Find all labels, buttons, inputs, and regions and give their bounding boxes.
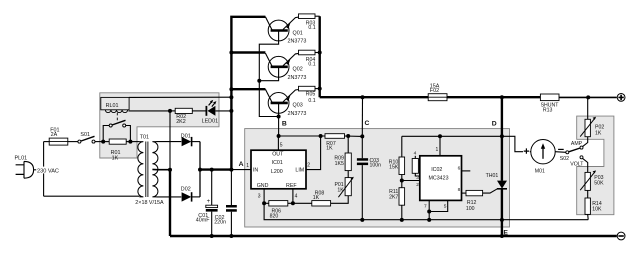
VOLT contact to P03 [583,158,588,172]
primary bottom return wire [44,195,140,197]
wire coil box top to left rail [129,96,231,98]
node C riser [361,97,363,136]
svg-text:4: 4 [295,194,298,200]
resistor R03 [299,14,316,19]
svg-text:LIM: LIM [295,168,304,174]
junction [262,201,266,205]
svg-text:220n: 220n [214,219,226,225]
switch S01 [78,140,81,143]
svg-text:2N3773: 2N3773 [288,39,307,45]
junction [229,51,233,55]
svg-text:230 VAC: 230 VAC [37,168,59,174]
junction [210,234,214,238]
wire to fuse [44,141,50,143]
svg-text:100: 100 [466,206,475,212]
resistor R07 [325,134,345,139]
plug PL01 [24,161,34,178]
resistor R12 [466,190,483,195]
junction [229,87,233,91]
svg-text:1: 1 [436,147,439,153]
svg-text:TH01: TH01 [486,173,499,179]
regulator module shaded box [245,129,510,227]
dashed actuator link [116,113,118,122]
svg-text:R05: R05 [306,91,316,97]
secondary centre tap [152,168,170,170]
junction [291,201,295,205]
junction [318,87,322,91]
svg-text:8: 8 [458,187,461,193]
wire R08 to P01 [331,196,349,204]
svg-text:D: D [492,120,497,127]
diode D01 [157,141,182,143]
svg-text:IC01: IC01 [272,160,283,166]
svg-text:PL01: PL01 [15,155,28,161]
base drop Q03 joins bus [278,103,280,136]
junction [361,95,365,99]
svg-text:A: A [239,161,244,168]
shunt resistor R13 [540,94,559,101]
svg-text:LED01: LED01 [202,118,218,124]
junction [360,134,364,138]
relay contact [103,126,109,142]
svg-text:1K5: 1K5 [335,161,344,167]
svg-text:0.1: 0.1 [308,61,315,67]
divider tap to pin 2 [402,180,420,182]
wire plug to branch [34,169,44,171]
junction [346,134,350,138]
junction [500,234,504,238]
transformer core [145,142,147,198]
IC01 L200 [251,150,306,189]
junction [229,168,233,172]
fuse F02 [428,94,447,101]
internal negative wire [264,203,588,219]
svg-text:1K: 1K [337,187,344,193]
svg-text:RL01: RL01 [106,103,119,109]
wire R07 to node C [345,135,363,137]
trimmer P02 [587,97,589,119]
capacitor C02 [230,170,232,206]
resistor R08 [312,201,331,206]
svg-text:2K7: 2K7 [389,194,398,200]
node D riser (thick) [501,97,503,181]
relay module shaded box [100,93,219,158]
svg-text:50K: 50K [594,181,604,187]
junction [210,168,214,172]
wire coil to R02 node [129,110,171,112]
junction [400,179,404,183]
LED LED01 [192,110,206,112]
svg-text:15K: 15K [389,165,399,171]
junction [168,109,172,113]
svg-text:2A: 2A [51,132,58,138]
junction [438,134,442,138]
trimmer P01 [347,171,349,178]
svg-text:R13: R13 [543,108,553,114]
wire fuse to S01 [68,141,78,143]
pin 2 LIM wire [306,136,321,170]
svg-text:IN: IN [253,168,258,174]
svg-text:F02: F02 [430,88,439,94]
junction [400,218,404,222]
svg-text:MC3423: MC3423 [429,176,449,182]
junction [277,134,281,138]
resistor R11 [401,175,403,188]
svg-text:2N3773: 2N3773 [288,111,307,117]
svg-text:0.1: 0.1 [308,25,315,31]
svg-text:7: 7 [424,203,427,209]
output terminal + [617,94,625,102]
svg-text:40mF: 40mF [196,218,210,224]
resistor R06 [269,201,288,206]
resistor R02 [170,110,175,112]
relay return line [169,111,171,170]
base drop Q02 [259,67,278,81]
wire R03 to emitter rail [315,15,320,17]
collector stub Q02 [231,51,265,53]
svg-text:2×18 V/15A: 2×18 V/15A [135,200,164,206]
junction [500,218,504,222]
switch S02 [566,151,569,154]
output rail (thick) [320,96,428,98]
pin 3 riser [263,189,265,204]
resistor R01 [109,139,126,144]
capacitor C01 [211,170,213,206]
thyristor to negative rail (thick) [501,189,503,236]
trimmer P03 [585,172,590,190]
resistor R04 [299,50,316,55]
svg-text:10K: 10K [592,207,602,213]
svg-text:S02: S02 [560,156,569,162]
collector stub Q03 [231,88,265,90]
svg-text:B: B [282,120,287,127]
junction [229,109,233,113]
svg-text:IC02: IC02 [431,167,442,173]
svg-text:Q02: Q02 [293,67,303,73]
junction [198,168,202,172]
pin 1 riser [439,136,441,156]
junction [229,234,233,238]
node A wire [200,168,231,170]
svg-text:AMP: AMP [571,141,583,147]
capacitor C03 [361,136,363,158]
svg-text:6: 6 [458,166,461,172]
raw supply rail (thick) [231,17,265,170]
230 VAC label [36,167,61,174]
svg-text:D01: D01 [181,134,191,140]
base bus [259,31,278,117]
R14 to internal negative wire [587,214,590,219]
junction [229,95,233,99]
junction [500,95,504,99]
secondary winding [152,142,158,197]
svg-text:820: 820 [270,214,279,220]
svg-text:S01: S01 [80,132,90,138]
svg-text:5: 5 [444,203,447,209]
svg-text:2: 2 [307,163,310,169]
svg-text:5: 5 [280,142,283,148]
transistor Q01 [268,20,289,41]
wire R05 to emitter rail [315,88,320,90]
junction [318,51,322,55]
svg-text:Q01: Q01 [293,30,303,36]
transistor Q02 [268,56,289,77]
svg-text:REF: REF [286,183,297,189]
wire REF to R08 [293,202,312,204]
junction [586,95,590,99]
svg-text:C: C [365,120,370,127]
svg-text:3: 3 [258,194,261,200]
fuse F01 [49,138,68,145]
resistor R05 [299,86,316,91]
AMP contact to P02 [583,137,588,147]
svg-text:VOLT: VOLT [570,162,584,168]
svg-text:1K: 1K [313,195,320,201]
junction [128,140,132,144]
pin 5 riser [277,136,279,150]
cathode bus [199,142,201,197]
junction [319,134,323,138]
junction [427,210,431,214]
rail to + terminal [559,96,617,98]
svg-text:1K: 1K [595,130,602,136]
svg-text:0.1: 0.1 [308,98,315,104]
pins 7 and 5 [428,200,430,220]
svg-text:L200: L200 [271,169,283,175]
junction [101,140,105,144]
svg-text:4: 4 [414,151,417,157]
rail after fuse [447,96,540,98]
svg-text:100n: 100n [370,162,382,168]
svg-text:1: 1 [246,163,249,169]
diode D02 [157,196,182,198]
junction [168,168,172,172]
node B wire [279,135,325,137]
transistor Q03 [268,93,289,114]
output terminal - [617,232,625,240]
wire R04 to emitter rail [315,52,320,54]
meter to S02 [555,151,566,154]
wire R01 to transformer [126,141,139,143]
junction [427,218,431,222]
wire S01 to R01 node [95,141,109,143]
svg-text:OUT: OUT [272,152,284,158]
junction [500,134,504,138]
junction [277,115,281,119]
svg-text:T01: T01 [140,135,149,141]
VCC wire to node D [402,136,531,151]
wire branch vertical [43,142,45,197]
svg-text:2K2: 2K2 [176,119,186,125]
centre tap down (thick) [169,170,171,236]
relay coil winding [105,110,127,113]
emitter rail (thick) [319,16,321,97]
pin 4 riser [292,189,294,204]
relay RL01 coil box [101,97,129,109]
svg-text:M01: M01 [535,168,545,174]
svg-text:1K: 1K [112,155,119,161]
svg-text:+: + [207,199,211,205]
timing capacitor pins 3-4 [412,159,418,174]
svg-text:D02: D02 [181,186,191,192]
meter range shaded box [577,116,614,215]
resistor R10 [401,136,403,157]
negative rail (thick) [170,235,617,237]
svg-text:2: 2 [416,182,419,188]
svg-text:Q03: Q03 [293,103,303,109]
svg-text:3: 3 [416,175,419,181]
meter M01 [531,140,555,164]
IC02 MC3423 [420,156,462,201]
svg-text:GND: GND [257,183,269,189]
pin 6 stub [462,170,471,172]
resistor R09 [347,136,349,153]
junction [257,79,261,83]
svg-text:1K: 1K [326,146,333,152]
resistor R14 [587,190,589,198]
pin 8 to R12 [462,192,467,194]
wire LED to rail [215,110,231,112]
R12 to thyristor gate [483,189,498,193]
svg-text:2N3773: 2N3773 [288,75,307,81]
junction [360,218,364,222]
